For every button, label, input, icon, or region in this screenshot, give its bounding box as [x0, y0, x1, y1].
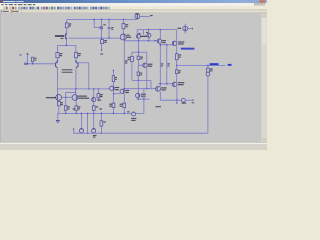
capacitor C1: [108, 27, 111, 29]
junction bias tap: [138, 80, 139, 81]
R18 name label: [178, 70, 180, 71]
wire lower bus to R8: [97, 89, 99, 94]
floating label near QK emitter: [155, 106, 161, 107]
resistor R16: [100, 121, 103, 126]
R14 name label: [109, 104, 112, 105]
toolbar icon: [98, 7, 100, 9]
toolbar icon: [65, 7, 67, 9]
toolbar icon: [41, 7, 43, 9]
junction drive bus VAS: [124, 88, 125, 89]
R18 value label: [178, 72, 180, 73]
wire Q12 base column to B1: [137, 65, 139, 72]
feedback net flag arrow: [113, 69, 115, 75]
junction V+ rail jog: [94, 19, 95, 20]
wire V3b to ground bus: [93, 132, 95, 135]
Q14 label line2: [178, 43, 184, 44]
wire R9 to ground rail: [65, 110, 67, 113]
Q3 label: [103, 24, 106, 25]
toolbar icon: [12, 7, 14, 9]
V+ rail to mirror jog wire: [93, 19, 95, 27]
toolbar icon: [84, 7, 86, 9]
R5 name label: [126, 24, 129, 25]
R7 name label: [61, 102, 63, 103]
junction input wire R1: [32, 63, 33, 64]
toolbar icon: [95, 7, 97, 9]
junction input flag: [27, 63, 28, 64]
V3b label line2: [93, 137, 96, 138]
menu item: [5, 4, 7, 5]
wire mirror top to Q10: [147, 30, 149, 34]
ground bus left flag: [73, 128, 75, 133]
active schematic tab: [0, 10, 10, 13]
toolbar icon: [74, 7, 76, 9]
transistor Q8: [92, 98, 96, 102]
scrollbar down arrow button: [262, 138, 267, 142]
junction lower bus feedback: [88, 88, 89, 89]
junction ground rail Q8 branch: [93, 113, 94, 114]
tab bar: [0, 10, 267, 13]
title bar close button: [259, 0, 265, 2]
rail label left: [73, 108, 76, 109]
bus B wire: [68, 37, 120, 39]
schematic canvas: [0, 13, 261, 142]
resistor R12: [131, 56, 134, 61]
wire R16 to ground bus: [100, 126, 102, 133]
B1 name label: [140, 73, 142, 74]
V3b label line1: [93, 135, 97, 136]
junction driver bus Q14 branch: [166, 83, 167, 84]
Q11 label line2: [162, 42, 165, 43]
toolbar icon: [60, 7, 62, 9]
R8 name label: [100, 94, 103, 95]
menu item: [18, 4, 22, 5]
junction output load: [207, 65, 208, 66]
load resistor R19: [207, 68, 210, 72]
Q13 model label: [141, 96, 146, 97]
wire Q12 emitter down: [146, 68, 148, 89]
junction Q14 base RE2 branch: [166, 44, 167, 45]
RE1 name label: [161, 63, 163, 64]
toolbar icon: [70, 7, 72, 9]
tail bus wire: [57, 44, 76, 46]
wire drive bus mid down: [143, 89, 145, 99]
R2 value label: [69, 25, 71, 26]
junction V+ rail R5: [123, 19, 124, 20]
Q14 label line1: [178, 41, 184, 42]
toolbar icon: [103, 7, 105, 9]
menu item: [33, 4, 35, 5]
menu bar: [0, 3, 267, 6]
junction Q1 collector: [57, 60, 58, 61]
Q7 model label line1: [78, 96, 87, 97]
wire R8 down to flag: [97, 98, 99, 100]
Q12 name label: [148, 64, 153, 65]
Q8 label line2: [97, 99, 101, 100]
toolbar icon: [35, 7, 37, 9]
R4 name label: [78, 53, 81, 54]
wire R13 to Q12 base: [138, 60, 140, 66]
R17 value label: [179, 57, 181, 58]
R19 value label: [210, 70, 212, 71]
toolbar icon: [37, 7, 39, 9]
resistor R9: [64, 106, 67, 111]
mirror bottom wire: [124, 40, 157, 42]
wire C1 to bus B: [108, 29, 110, 38]
wire bias tap corner down: [150, 80, 152, 88]
wire tail bus to R4: [75, 45, 77, 52]
junction mirror top QB: [148, 29, 149, 30]
junction ground rail R14: [113, 113, 114, 114]
wire V+ rail to R2: [66, 19, 68, 23]
output emitter bus wire: [160, 99, 180, 101]
mirror bubble Q3: [100, 27, 103, 30]
bias bottom wire: [137, 98, 150, 100]
toolbar icon: [30, 7, 32, 9]
Q1 Q2 model label line1: [62, 69, 73, 70]
junction ground rail R16: [101, 113, 102, 114]
lower bus wire: [57, 88, 109, 90]
junction bus B Q3: [101, 37, 102, 38]
R12 value label: [128, 59, 130, 60]
resistor R7: [57, 102, 60, 106]
VAS collector line wire: [123, 40, 125, 89]
wire V+ rail to R5: [123, 19, 125, 23]
second net label: [228, 64, 232, 66]
toolbar icon: [86, 7, 88, 9]
current source I1: [135, 14, 140, 19]
I1 name label: [135, 13, 138, 14]
resistor R13: [137, 56, 140, 60]
junction lower bus Q2: [75, 88, 76, 89]
toolbar icon: [32, 7, 34, 9]
wire emitter bus to probe: [180, 99, 182, 101]
junction ground rail mid: [87, 113, 88, 114]
junction ground rail R10: [76, 113, 77, 114]
load probe circle: [206, 72, 210, 76]
R10 name label: [78, 106, 80, 107]
transistor Q5 tail current source: [65, 33, 67, 39]
rail label right: [99, 108, 102, 109]
wire R1 to input wire: [32, 62, 34, 64]
probe source VP: [182, 98, 186, 102]
toolbar icon: [57, 7, 59, 9]
base bracket left leg wire: [65, 92, 67, 97]
resistor R18: [175, 70, 178, 74]
stub end label: [192, 102, 195, 103]
wire lower bus to Q8: [93, 89, 95, 98]
V2 label below line2: [131, 120, 135, 121]
wire R11 to ground rail: [93, 110, 95, 113]
B1 value label: [140, 74, 142, 75]
junction bias bottom mid: [143, 98, 144, 99]
wire QG emitter to R15: [123, 94, 125, 104]
input wire: [26, 63, 55, 65]
QK label line2: [161, 89, 166, 90]
wire R17 to output node: [176, 60, 178, 66]
junction ground bus mid: [87, 133, 88, 134]
toolbar icon: [90, 7, 92, 9]
Q7 model label line2: [78, 98, 89, 99]
I2 name label: [178, 28, 181, 29]
I2 stub tick: [192, 28, 194, 30]
wire ground rail mid drop: [87, 113, 89, 133]
junction tail bus: [66, 45, 67, 46]
R5 value label: [126, 26, 128, 27]
toolbar icon: [54, 7, 56, 9]
R1 value label: [34, 60, 36, 61]
title bar minimize button: [248, 0, 253, 2]
junction drive line Q12: [146, 88, 147, 89]
transistor Q1 input pair: [55, 61, 57, 68]
jog wire to box1 branch: [132, 51, 147, 53]
resistor R14 under QF: [112, 103, 115, 108]
Q4 name label: [127, 35, 130, 36]
wire V+ rail to C1: [108, 19, 110, 27]
R9 name label: [67, 106, 69, 107]
wire Q7 to R10: [75, 101, 77, 106]
RE1 value label: [161, 65, 163, 66]
wire tail bus to R3: [56, 45, 58, 52]
menu item: [9, 4, 13, 5]
ground bus wire: [74, 132, 208, 134]
toolbar icon: [48, 7, 50, 9]
Q2 base wire to feedback: [78, 62, 88, 64]
wire V3a to ground bus: [80, 132, 82, 135]
title bar app icon: [1, 1, 3, 3]
Q5 model label: [55, 35, 64, 37]
pre-driver transistor QF: [110, 86, 114, 90]
Q12 base wire: [139, 64, 143, 66]
wire mirror top to Q9: [136, 30, 138, 35]
menu item: [28, 4, 32, 5]
net flag below R6: [101, 50, 103, 52]
resize grip: [262, 145, 267, 150]
wire Q8 branch to V3b: [93, 113, 95, 128]
resistor R8: [97, 94, 100, 98]
R15 name label: [120, 104, 123, 105]
bias tap wire: [132, 79, 151, 81]
toolbar icon: [23, 7, 25, 9]
Q6 model label: [46, 97, 56, 98]
toolbar icon: [26, 7, 28, 9]
wire RE2 branch down: [166, 45, 168, 84]
Q10 name label: [146, 32, 148, 33]
wire Q9 branch down to jog: [138, 41, 140, 52]
wire R15 to ground rail: [123, 108, 125, 114]
wire ground rail to V3a: [80, 113, 82, 128]
toolbar: [0, 6, 267, 10]
junction bracket Q7 collector: [75, 92, 76, 93]
junction base link R9: [65, 97, 66, 98]
wire I1 to net stub: [140, 15, 150, 17]
net label at I1 stub: [150, 15, 153, 16]
base bracket top wire: [66, 91, 76, 93]
R2 name label: [69, 23, 71, 24]
wire R12 down to bias tap: [131, 62, 133, 81]
R7 value label: [61, 104, 63, 105]
menu item: [1, 4, 3, 5]
QG label line2: [125, 92, 129, 93]
resistor R15 under QG: [123, 103, 126, 108]
second tab: [11, 10, 21, 13]
wire R7 to ground rail: [58, 106, 60, 114]
VAS line label line2: [125, 62, 127, 63]
VP label: [182, 103, 187, 104]
RE2 name label: [167, 63, 169, 64]
ground symbol left: [56, 120, 60, 123]
resistor R20 on feedback branch: [112, 76, 114, 82]
toolbar icon: [108, 7, 110, 9]
input net flag: [26, 54, 28, 56]
Q4 model label: [127, 37, 132, 38]
C1 name label: [111, 27, 113, 28]
wire output node to R18: [176, 65, 178, 69]
QF label line2: [115, 89, 119, 90]
menu item: [24, 4, 27, 5]
junction lower bus R8: [98, 88, 99, 89]
wire Q1 collector down: [56, 68, 58, 89]
ground rail wire: [58, 112, 144, 114]
wire Q8 to R11: [93, 102, 95, 106]
R20 value label: [115, 79, 117, 80]
transistor Q4 VAS: [120, 34, 126, 40]
toolbar icon: [81, 7, 83, 9]
C1 value label: [111, 29, 113, 30]
mirror model label: [141, 36, 147, 37]
junction ground rail V3a: [81, 113, 82, 114]
Q6 Q7 base link wire: [62, 96, 72, 98]
stub end tick: [192, 99, 194, 101]
transistor Q10 mirror B: [147, 33, 151, 37]
Q12 model label: [148, 66, 152, 67]
wire Q5 emitter to tail bus: [65, 39, 67, 45]
resistor R2: [65, 23, 68, 28]
R1 name label: [34, 58, 36, 59]
vertical scrollbar track: [261, 13, 267, 142]
R12 name label: [128, 57, 131, 58]
junction mirror bottom Q9: [138, 40, 139, 41]
wire R18 to QJ: [176, 74, 178, 83]
R15 value label: [120, 106, 123, 107]
wire Q11 emitter down: [159, 43, 161, 84]
QK label line1: [161, 87, 166, 88]
junction ground rail R9: [65, 113, 66, 114]
wire QK collector up: [159, 84, 161, 87]
wire R10 to ground rail: [75, 110, 77, 113]
output transistor QJ: [172, 82, 177, 87]
junction mirror bottom Q10: [148, 40, 149, 41]
transistor Q2 input pair: [76, 61, 79, 68]
mdi child window buttons: [254, 3, 257, 5]
junction mirror top Q11: [160, 29, 161, 30]
R6 value label: [104, 42, 106, 43]
wire Q13 to bias bottom: [137, 98, 139, 100]
series source V2 on ground rail: [132, 112, 136, 116]
I2 wire top: [184, 24, 186, 27]
junction Q11 emitter Q14 base: [160, 44, 161, 45]
source V3a: [79, 129, 83, 133]
second tab label: [13, 11, 18, 12]
R13 value label: [140, 58, 142, 59]
R14 value label: [109, 106, 112, 107]
wire R2 to Q5 collector: [66, 28, 68, 34]
menu item: [14, 4, 16, 5]
toolbar icon: [105, 7, 107, 9]
V+ rail wire: [67, 18, 138, 20]
wire Q2 collector down: [75, 68, 77, 89]
Q9 name label: [138, 33, 140, 34]
wire R14 to ground rail: [113, 108, 115, 114]
wire jog to R13: [138, 52, 140, 56]
transistor Q7 mirror right: [72, 95, 78, 101]
Q13 name label: [141, 94, 146, 95]
QJ label line2: [178, 84, 184, 85]
resistor R4: [74, 53, 77, 58]
transistor Q11: [157, 39, 161, 43]
transistor Q9 mirror A: [137, 34, 141, 38]
wire R20 to QF collector: [112, 82, 114, 87]
net flag label below R6: [100, 53, 103, 54]
transistor Q6 mirror left: [56, 95, 62, 101]
V2 label below line1: [131, 118, 136, 119]
input port: [25, 63, 27, 65]
toolbar icon: [46, 7, 48, 9]
driver vertical Q11 wire: [159, 30, 161, 39]
toolbar icon: [3, 7, 5, 9]
upper net label highlighted: [181, 48, 195, 50]
VAS line label line1: [125, 60, 128, 61]
junction V+ rail C1: [108, 19, 109, 20]
toolbar icon: [18, 7, 20, 9]
wire QF emitter down: [113, 91, 115, 104]
junction V+ rail Q3: [101, 19, 102, 20]
junction output node R17: [176, 65, 177, 66]
QF label line1: [115, 87, 120, 88]
toolbar icon: [93, 7, 95, 9]
resistor B1 bias multiplier: [137, 72, 140, 76]
junction lower bus F3: [93, 88, 94, 89]
toolbar icon: [67, 7, 69, 9]
junction Q2 collector: [75, 60, 76, 61]
toolbar icon: [9, 7, 11, 9]
junction QF emitter: [113, 93, 114, 94]
wire base link to R9: [65, 97, 67, 106]
scrollbar thumb: [262, 18, 267, 44]
source V3b: [92, 129, 96, 133]
wire QK emitter down: [159, 91, 161, 100]
QJ label line1: [178, 82, 184, 83]
I2 stub wire: [188, 28, 193, 30]
V2 label above: [127, 111, 130, 112]
output net label highlighted: [210, 63, 219, 65]
wire QJ emitter down: [176, 87, 178, 101]
wire bias tap to Q13: [137, 80, 139, 93]
R6 name label: [104, 40, 107, 41]
junction bus B C1: [108, 37, 109, 38]
mirror top rail wire: [137, 29, 177, 31]
title bar text: [3, 1, 16, 2]
R9 value label: [67, 108, 69, 109]
wire mirror top corner down: [176, 30, 178, 54]
resistor R11: [92, 106, 95, 111]
second tab icon: [11, 11, 12, 13]
R3 name label: [60, 53, 63, 54]
Q5 name label: [61, 38, 64, 39]
wire B1 to bias tap: [137, 76, 139, 81]
toolbar icon: [6, 7, 8, 9]
RE2 value label: [167, 65, 169, 66]
resistor R3: [56, 53, 59, 58]
